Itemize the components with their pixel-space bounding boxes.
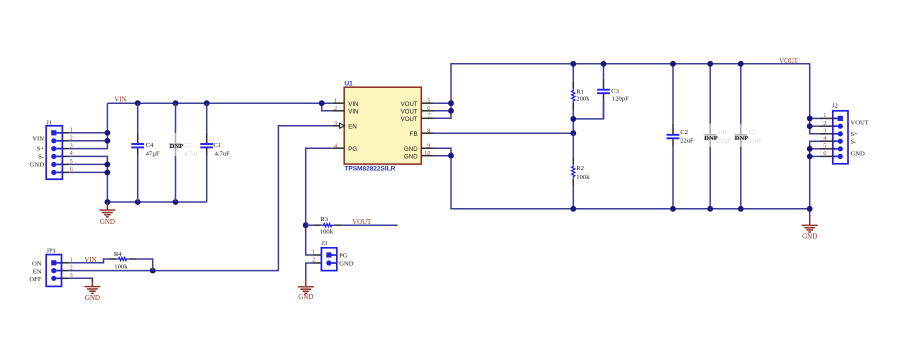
- node GND rail C2: [670, 206, 676, 212]
- ground output: [802, 218, 818, 241]
- node VIN rail C5: [173, 100, 179, 106]
- svg-text:GND: GND: [404, 146, 418, 153]
- ground input: [99, 202, 115, 226]
- svg-text:VIN: VIN: [348, 109, 358, 116]
- pin 10 GND: [421, 155, 435, 157]
- svg-text:VOUT: VOUT: [851, 120, 869, 127]
- svg-text:PG: PG: [339, 252, 348, 259]
- svg-text:22uF: 22uF: [718, 137, 732, 144]
- label C6 DNP: [704, 129, 731, 144]
- svg-text:C5: C5: [183, 142, 191, 149]
- label C2: [680, 129, 694, 144]
- svg-text:22uF: 22uF: [748, 137, 762, 144]
- resistor R2: [572, 133, 575, 209]
- svg-text:5: 5: [823, 143, 826, 150]
- wire PG net: [306, 148, 333, 255]
- svg-text:1: 1: [334, 98, 337, 105]
- node J2 pin2: [807, 123, 813, 129]
- svg-text:120pF: 120pF: [612, 96, 629, 103]
- node VIN rail C4: [135, 100, 141, 106]
- wire U1 pin10: [433, 155, 451, 157]
- label C4 value: [146, 142, 160, 158]
- node GND rail C5: [173, 199, 179, 205]
- wire VIN rail: [107, 102, 332, 104]
- node R1 C3 junction: [570, 116, 576, 122]
- svg-text:1: 1: [70, 257, 73, 264]
- wire J1 pin1: [69, 132, 107, 134]
- svg-text:TPSM82822SILR: TPSM82822SILR: [344, 166, 395, 173]
- node VOUT rail C3: [601, 61, 607, 67]
- node GND rail C6: [707, 206, 713, 212]
- capacitor C2: [667, 64, 680, 209]
- pin 7 VOUT: [421, 117, 435, 119]
- node GND rail C7: [738, 206, 744, 212]
- wire R3 to VOUT: [341, 224, 397, 226]
- svg-text:VOUT: VOUT: [352, 219, 372, 226]
- svg-text:C6: C6: [718, 129, 726, 136]
- connector JP1: [29, 248, 72, 287]
- svg-text:100k: 100k: [320, 229, 334, 236]
- svg-text:S+: S+: [37, 145, 45, 152]
- capacitor C6 (DNP): [704, 64, 717, 209]
- node GND rail R2: [570, 206, 576, 212]
- ground JP1: [84, 278, 100, 302]
- svg-text:6: 6: [823, 150, 826, 157]
- label C1 value: [213, 142, 230, 158]
- svg-text:6: 6: [70, 166, 73, 173]
- node VOUT rail C7: [738, 61, 744, 67]
- svg-text:3: 3: [823, 128, 826, 135]
- resistor R1: [572, 64, 575, 119]
- capacitor C4: [131, 103, 144, 202]
- node J1 pin2 junction: [105, 138, 111, 144]
- label R3: [320, 216, 334, 236]
- svg-text:6: 6: [427, 105, 430, 112]
- svg-text:5: 5: [70, 158, 73, 165]
- capacitor C3: [597, 64, 610, 119]
- label R4: [114, 251, 128, 270]
- pin 6 VOUT: [421, 110, 435, 112]
- svg-text:5: 5: [427, 98, 430, 105]
- svg-text:FB: FB: [410, 131, 418, 138]
- svg-text:PG: PG: [348, 146, 357, 153]
- wire J1 VIN bus: [69, 103, 107, 148]
- svg-text:100k: 100k: [114, 263, 128, 270]
- wire U1 GND bus: [433, 148, 809, 209]
- svg-text:GND: GND: [851, 151, 866, 158]
- svg-text:R3: R3: [320, 216, 328, 223]
- node J2 pin6: [807, 154, 813, 160]
- label C3: [611, 88, 629, 102]
- node J1 pin6 junction: [105, 170, 111, 176]
- pin 3 EN input arrow: [332, 125, 339, 127]
- svg-text:VIN: VIN: [114, 96, 126, 103]
- pin 9 GND: [421, 147, 435, 149]
- svg-text:4.7uF: 4.7uF: [184, 151, 200, 158]
- node VOUT rail C2: [670, 61, 676, 67]
- wire FB net: [433, 132, 573, 134]
- svg-text:S-: S-: [851, 139, 857, 146]
- svg-text:S+: S+: [851, 131, 859, 138]
- node VIN rail C1: [204, 100, 210, 106]
- ground J3: [298, 279, 314, 302]
- svg-text:C2: C2: [680, 129, 688, 136]
- svg-text:GND: GND: [100, 218, 115, 226]
- svg-text:3: 3: [70, 142, 73, 149]
- pin 1 VIN: [332, 102, 344, 104]
- wire EN net: [153, 126, 333, 271]
- svg-text:VIN: VIN: [32, 135, 44, 142]
- svg-text:C4: C4: [146, 142, 154, 149]
- wire J2 GND bus: [810, 141, 820, 217]
- wire J1 GND bus: [69, 156, 107, 202]
- node VOUT pin6: [448, 108, 454, 114]
- svg-text:VOUT: VOUT: [401, 109, 418, 116]
- wire R1 bottom to FB: [572, 119, 574, 133]
- svg-text:2: 2: [70, 135, 73, 142]
- node J2 pin1: [807, 116, 813, 122]
- svg-text:47µF: 47µF: [146, 151, 160, 158]
- svg-text:R4: R4: [114, 251, 122, 258]
- wire J2 VOUT bus pins: [810, 117, 820, 119]
- node EN R4 junction: [150, 268, 156, 274]
- resistor R3: [306, 224, 342, 227]
- svg-text:VOUT: VOUT: [401, 116, 418, 123]
- svg-text:OFF: OFF: [29, 276, 41, 283]
- svg-text:GND: GND: [30, 162, 45, 169]
- node VOUT rail C6: [707, 61, 713, 67]
- svg-text:GND: GND: [404, 153, 418, 160]
- wire C3 bottom link: [573, 102, 603, 119]
- wire JP1 pin2 to EN: [69, 270, 153, 272]
- node J1 pin5 junction: [105, 162, 111, 168]
- node GND rail C4: [135, 199, 141, 205]
- wire JP1 pin3: [69, 278, 92, 282]
- svg-text:1: 1: [70, 127, 73, 134]
- svg-text:VIN: VIN: [84, 257, 96, 264]
- svg-text:2: 2: [334, 105, 337, 112]
- wire U1 pin6: [433, 110, 451, 112]
- svg-text:C3: C3: [611, 88, 619, 95]
- wire J1 pin2: [69, 140, 107, 142]
- pin 5 VOUT: [421, 102, 435, 104]
- node J1 pin1 junction: [105, 130, 111, 136]
- capacitor C5 (DNP): [169, 103, 182, 202]
- svg-text:ON: ON: [32, 261, 42, 268]
- wire J3 pin2 to ground: [306, 263, 313, 279]
- node GND rail J1: [105, 199, 111, 205]
- node GND rail J2: [807, 206, 813, 212]
- svg-text:DNP: DNP: [170, 143, 184, 150]
- pin 2 VIN: [332, 110, 344, 112]
- svg-text:3: 3: [334, 120, 337, 127]
- svg-text:S-: S-: [38, 153, 44, 160]
- label C5 DNP: [170, 142, 200, 158]
- node VOUT rail R1: [570, 61, 576, 67]
- wire J1 pin5: [69, 163, 107, 165]
- svg-text:4.7uF: 4.7uF: [215, 151, 231, 158]
- svg-text:1: 1: [823, 112, 826, 119]
- label R1: [576, 88, 590, 102]
- svg-text:DNP: DNP: [704, 135, 718, 142]
- svg-text:DNP: DNP: [735, 135, 749, 142]
- resistor R4: [109, 257, 153, 270]
- svg-text:8: 8: [427, 128, 430, 135]
- svg-text:200k: 200k: [576, 96, 590, 103]
- svg-text:R1: R1: [576, 88, 584, 95]
- svg-text:GND: GND: [298, 293, 313, 301]
- svg-text:9: 9: [427, 143, 430, 150]
- wire J2 pin5: [810, 148, 820, 150]
- node GND pin10: [448, 153, 454, 159]
- svg-text:EN: EN: [348, 124, 356, 131]
- capacitor C7 (DNP): [734, 64, 747, 209]
- svg-text:GND: GND: [802, 232, 817, 240]
- connector J2: [820, 103, 869, 164]
- wire input GND rail: [107, 201, 206, 203]
- wire U1 pin5: [433, 102, 451, 104]
- node PG R3 junction: [303, 222, 309, 228]
- svg-text:22uF: 22uF: [680, 137, 694, 144]
- node J2 pin5: [807, 146, 813, 152]
- svg-text:J2: J2: [832, 103, 838, 110]
- pin 4 PG: [332, 147, 344, 149]
- label C7 DNP: [735, 129, 762, 144]
- svg-text:2: 2: [70, 264, 73, 271]
- svg-text:VOUT: VOUT: [779, 58, 799, 65]
- connector J3: [312, 240, 354, 271]
- wire J2 pin6: [810, 155, 820, 157]
- node FB junction: [570, 130, 576, 136]
- wire J1 pin6: [69, 171, 107, 173]
- svg-text:C1: C1: [213, 142, 221, 149]
- svg-text:J3: J3: [321, 240, 328, 247]
- connector J1: [30, 120, 74, 180]
- svg-text:C7: C7: [749, 129, 757, 136]
- svg-text:U1: U1: [344, 80, 353, 87]
- node VOUT pin5: [448, 100, 454, 106]
- wire VIN drop to U1 pin 2: [322, 103, 333, 111]
- svg-text:1: 1: [312, 249, 315, 256]
- svg-text:10: 10: [424, 150, 430, 157]
- svg-text:100k: 100k: [576, 174, 590, 181]
- svg-text:JP1: JP1: [46, 248, 56, 255]
- svg-text:R2: R2: [576, 165, 584, 172]
- svg-text:EN: EN: [33, 268, 42, 275]
- svg-text:VIN: VIN: [348, 101, 358, 108]
- svg-text:7: 7: [427, 113, 430, 120]
- svg-text:GND: GND: [85, 294, 100, 302]
- pin 8 FB: [421, 132, 435, 134]
- label R2: [576, 165, 590, 181]
- op-amp U1 TPSM82822SILR: [332, 80, 435, 172]
- svg-text:VOUT: VOUT: [401, 101, 418, 108]
- wire JP1 pin1 to R4: [69, 259, 109, 263]
- svg-text:2: 2: [823, 120, 826, 127]
- capacitor C1: [200, 103, 213, 202]
- svg-text:GND: GND: [339, 261, 354, 268]
- svg-text:2: 2: [312, 257, 315, 264]
- node VIN at U1 pin1: [319, 100, 325, 106]
- wire VOUT pins bus: [433, 64, 820, 134]
